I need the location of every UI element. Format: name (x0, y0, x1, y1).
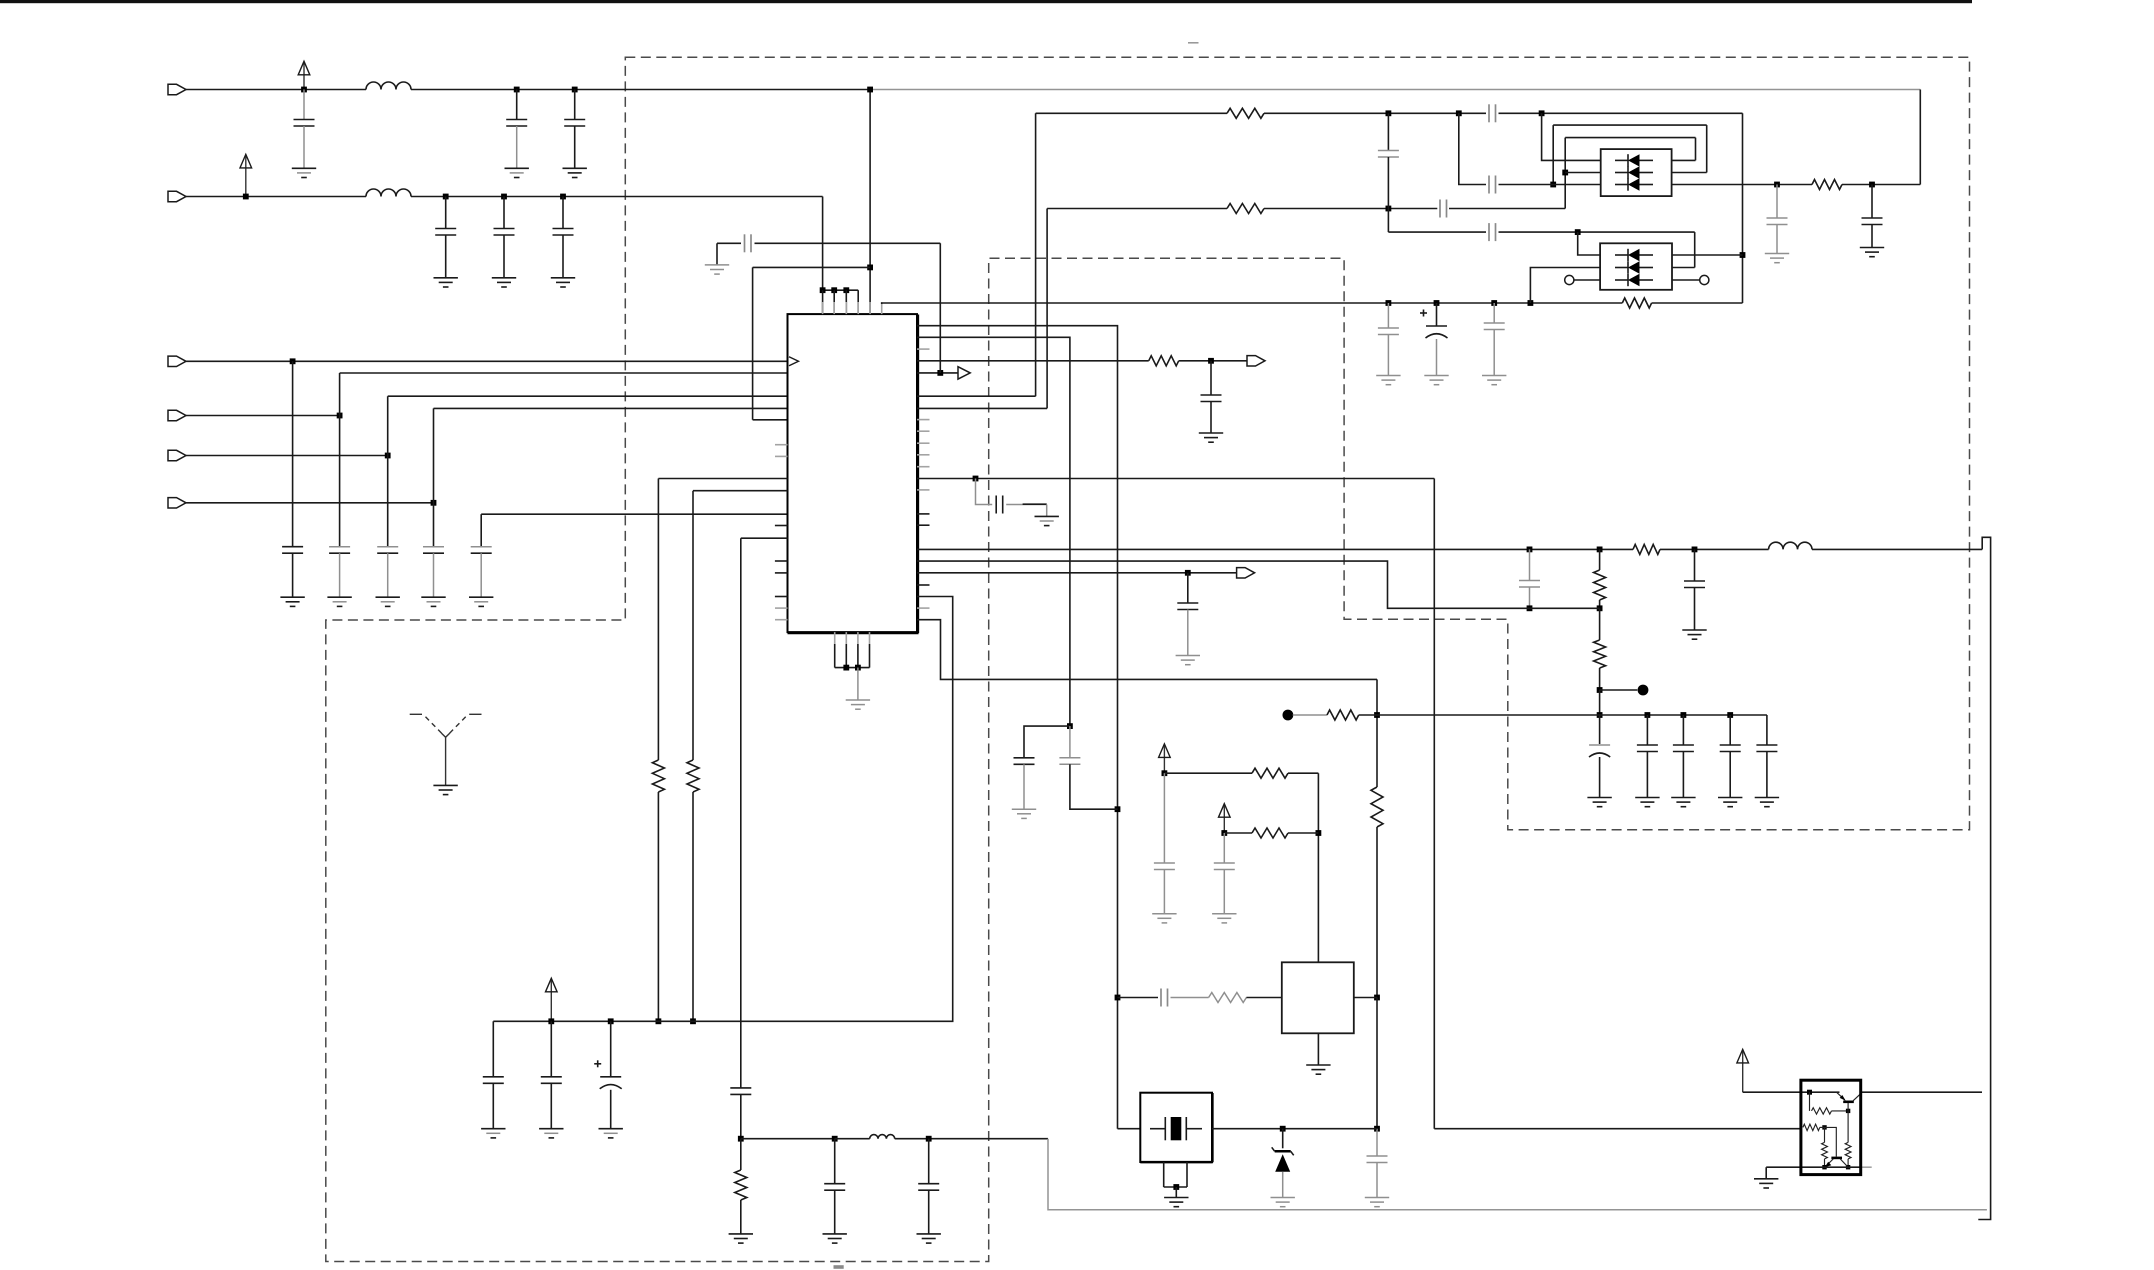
capacitor C25 (1720, 744, 1741, 746)
capacitor C26 (1756, 744, 1777, 746)
capacitor C14 wire top (1387, 113, 1389, 150)
diode D2a (1615, 254, 1628, 256)
input connector J4 (168, 410, 186, 420)
wire R3 to flag (1179, 360, 1247, 362)
wire y1138 b (835, 1138, 870, 1140)
power flag VCC6 (1742, 1051, 1744, 1092)
junction rail C34 (608, 1018, 614, 1024)
junction x1069 y726 (1067, 723, 1073, 729)
junction y549 c19 (1692, 547, 1698, 553)
junction y113 c14 (1386, 110, 1392, 116)
U1 right pin short stub y513.9 (917, 513, 930, 515)
wire Ra to node (1832, 1110, 1849, 1112)
capacitor C17 (1484, 322, 1505, 324)
test point TP1 (1638, 685, 1649, 696)
U1 bottom pin wire 2 (845, 644, 847, 668)
resistor Rd (1845, 1142, 1851, 1159)
wire R10 to x1318 (1288, 832, 1318, 834)
wire U1 top pin 3 riser (845, 290, 847, 314)
wire U1 pin514 to cap col (481, 513, 787, 515)
wire C35 drop (492, 1021, 494, 1077)
capacitor C31 (1214, 862, 1235, 864)
wire y549 mid (1660, 548, 1769, 550)
capacitor C18 tail (1529, 587, 1531, 608)
wire rectB riser (1564, 138, 1566, 209)
ground under C37 (1035, 515, 1059, 517)
capacitor C32 (1367, 1155, 1388, 1157)
IC U1 clock input marker (789, 357, 799, 366)
wire X1 out (1212, 1128, 1377, 1130)
wire y184 to corner (1842, 184, 1920, 186)
wire y184 to D1 (1499, 184, 1601, 186)
junction line1-C2 (514, 87, 520, 93)
capacitor C22 wire (1599, 715, 1601, 744)
wire C34 drop (610, 1021, 612, 1077)
wire J4 to U1 pin2 (340, 372, 788, 374)
diode D3 cathode bar (1275, 1150, 1291, 1153)
net-tie arm dash right (469, 713, 481, 715)
junction J4 col (337, 413, 343, 419)
capacitor C10 (423, 546, 444, 548)
U1 left pin short stub y525.5 (775, 525, 788, 527)
wire U1 pin619 (917, 620, 1377, 680)
diode array D2 body (1600, 243, 1672, 289)
transistor Q1 base bar (1843, 1101, 1854, 1104)
dashed shield boundary polygon (326, 57, 1970, 1261)
ground under R13 (729, 1233, 753, 1235)
wire J5 to U1 pin3 (388, 395, 788, 397)
capacitor C34 tail (610, 1090, 612, 1129)
wire TP2 to R8 (1293, 714, 1327, 716)
wire U1 top pin tie bar (823, 289, 859, 291)
wire X1 bottom pin B (1186, 1162, 1188, 1187)
junction J6 col (431, 500, 437, 506)
junction Qbox base net (1807, 1090, 1812, 1095)
ground under C22 (1587, 797, 1611, 799)
wire osc output (1354, 997, 1377, 999)
wire y208 right (1449, 208, 1565, 210)
capacitor C24 (1673, 744, 1694, 746)
U1 bottom pin stub 1 (834, 632, 836, 644)
power flag VCC3 (550, 980, 552, 1022)
power flag VCC5 (1223, 805, 1225, 833)
wire y113 left seg (1036, 112, 1227, 114)
junction x1318 r10 (1316, 830, 1322, 836)
wire node A to U1 left pin6 (753, 419, 788, 421)
wire J4 riser (339, 373, 341, 547)
capacitor C15 (1378, 327, 1399, 329)
ground under C7 (280, 596, 304, 598)
junction Rd bottom (1846, 1165, 1850, 1169)
ground under C44 (917, 1233, 941, 1235)
resistor Rc (1822, 1142, 1828, 1159)
junction y549 c18 (1527, 547, 1533, 553)
power flag VCC2 (245, 156, 247, 197)
capacitor C31 wire (1223, 833, 1225, 863)
ground under C6 (551, 277, 575, 279)
capacitor C42 (1488, 176, 1490, 194)
wire osc input (1118, 997, 1159, 999)
crystal X1 plate right (1185, 1117, 1187, 1140)
junction line2-C6 (560, 194, 566, 200)
transistor Q1 emitter (1837, 1092, 1845, 1100)
wire D2 top-right pin (1672, 254, 1743, 256)
wire U1 pin596 to rail (493, 597, 952, 1022)
wire Q-box gnd drop (1765, 1167, 1767, 1179)
resistor R9 (1252, 768, 1288, 778)
capacitor C5 wire (503, 197, 505, 229)
wire line2 mid (411, 196, 823, 198)
junction X1 tie (1173, 1184, 1179, 1190)
wire D1 top-left riser (1542, 113, 1601, 160)
U1 top pin stub 5 (869, 302, 871, 314)
U1 right pin stub y608.1 (917, 607, 930, 609)
ground under C11 (469, 596, 493, 598)
capacitor C16 tail (1436, 339, 1438, 376)
wire capjog down (976, 479, 993, 505)
capacitor C1 tail (303, 126, 305, 168)
wire U1 pin549 (917, 548, 1633, 550)
junction node A at y267 (867, 265, 873, 271)
wire D1 mid-left pin (1565, 172, 1601, 174)
diode D2c (1615, 279, 1628, 281)
junction r16 tp (1597, 687, 1603, 693)
capacitor C11 (471, 546, 492, 548)
capacitor C28 (1059, 757, 1080, 759)
U1 bottom pin stub 4 (869, 632, 871, 644)
U1 right pin stub y466.7 (917, 466, 930, 468)
U1 top pin stub 3 (845, 302, 847, 314)
diode array D1 body (1601, 149, 1672, 196)
transistor Q1 collector (1853, 1093, 1861, 1101)
U1 right pin stub y443.2 (917, 442, 930, 444)
wire y715 rail (1377, 714, 1767, 716)
capacitor C8 tail (339, 553, 341, 597)
capacitor C29 (730, 1087, 751, 1089)
resistor R11 (652, 760, 664, 792)
wire Rb to node (1820, 1126, 1825, 1128)
wire node drop (1847, 1111, 1849, 1143)
capacitor C19 (1684, 580, 1705, 582)
wire C33 drop (550, 1021, 552, 1077)
wire y549 right (1812, 548, 1982, 550)
U1 right pin stub y349.1 (917, 348, 930, 350)
wire x1377 drop1 (1376, 679, 1378, 787)
junction x1377 xtal line (1374, 1126, 1380, 1132)
wire C38 right seg (755, 242, 941, 244)
capacitor C3 wire (574, 90, 576, 120)
junction Q2 base node (1822, 1125, 1826, 1129)
ground under C1 (292, 167, 316, 169)
wire C38 left seg (717, 242, 741, 244)
U1 right pin short stub y585 (917, 584, 930, 586)
capacitor C38 (744, 234, 746, 252)
resistor R14 (1371, 787, 1383, 827)
capacitor C23 (1637, 744, 1658, 746)
wire right bracket (1978, 537, 1990, 1219)
junction y1138 c31 (926, 1136, 932, 1142)
capacitor C16 electrolytic (1426, 325, 1447, 327)
wire y1138 a (741, 1138, 835, 1140)
U1 left pin short stub y561 (775, 560, 788, 562)
capacitor C19 tail (1694, 588, 1696, 631)
junction O1 cap col (1185, 570, 1191, 576)
capacitor C5 (494, 228, 515, 230)
junction x1377 osc pin (1374, 995, 1380, 1001)
capacitor C27 (1014, 757, 1035, 759)
input connector J2 (168, 191, 186, 201)
resistor R8 (1327, 710, 1359, 720)
capacitor C33 tail (550, 1083, 552, 1128)
ground under C30 (1152, 913, 1176, 915)
capacitor C44 tail (928, 1190, 930, 1234)
capacitor C2 wire (516, 90, 518, 120)
ground under C35 (481, 1128, 505, 1130)
wire U1 pin-top6 bend (882, 303, 1531, 304)
capacitor C12 wire (1210, 361, 1212, 395)
wire U1 pin337 (917, 337, 1070, 726)
U1 right pin stub y489.9 (917, 489, 930, 491)
capacitor C33 (541, 1076, 562, 1078)
ground under C5 (492, 277, 516, 279)
ground under C16 (1424, 375, 1448, 377)
wire Q1 out (1861, 1091, 1982, 1093)
capacitor C44 (918, 1183, 939, 1185)
wire U1 top pin 4 riser (857, 290, 859, 314)
capacitor C14 (1378, 150, 1399, 152)
junction line2-C4 (443, 194, 449, 200)
wire x1920 riser (1919, 90, 1921, 185)
capacitor C15 wire (1387, 303, 1389, 328)
wire D2 top-left riser (1578, 232, 1600, 255)
capacitor C21 wire (1871, 185, 1873, 219)
capacitor C10 tail (433, 553, 435, 597)
capacitor C40 (1439, 200, 1441, 218)
ground under C4 (434, 277, 458, 279)
junction pin478 capjog (973, 476, 979, 482)
ground under C3 (563, 167, 587, 169)
input connector J6 (168, 498, 186, 508)
resistor R7 (1633, 544, 1660, 554)
ground under C32 (1365, 1197, 1389, 1199)
page top border bar (0, 0, 1972, 3)
wire y302 right (1652, 302, 1743, 304)
junction rail P3 (548, 1018, 554, 1024)
wire capjog right (1006, 504, 1046, 506)
junction bottom tie 2 (855, 665, 861, 671)
capacitor C6 wire (562, 197, 564, 229)
wire y1138 c (895, 1138, 1048, 1140)
ground under C19 (1682, 629, 1706, 631)
junction y715 c25 (1727, 712, 1733, 718)
wire U1 pin478 right (917, 478, 1434, 480)
capacitor C22 electrolytic (1589, 744, 1610, 746)
wire U1 bottom tie bar (835, 667, 870, 669)
wire branch to D2 mid-left pin (1530, 268, 1600, 304)
resistor R10 (1252, 828, 1288, 838)
ground under C2 (505, 167, 529, 169)
wire y184 right (1672, 184, 1812, 186)
junction J5 col (385, 453, 391, 459)
capacitor C29 tail (740, 1094, 742, 1138)
junction P4 (1162, 770, 1168, 776)
capacitor C20 tail (1776, 225, 1778, 254)
U1 left pin stub y456.4 (775, 455, 788, 457)
crystal X1 plate left (1164, 1117, 1166, 1140)
capacitor C7 wire (292, 361, 294, 546)
wire U1 ground riser (857, 668, 859, 700)
U1 bottom pin stub 2 (845, 632, 847, 644)
capacitor C30 wire (1163, 773, 1165, 863)
wire U1 pin408 out (917, 407, 1047, 409)
wire c43 to R18 (1171, 997, 1209, 999)
wire x1377 drop3 (1376, 998, 1378, 1129)
wire P5 to R10 (1224, 832, 1252, 834)
capacitor C22 tail (1599, 757, 1601, 798)
wire y302 to resistor (1530, 302, 1622, 304)
wire y208 left seg (1047, 208, 1227, 210)
diode D2b (1615, 267, 1628, 269)
capacitor C32 tail (1376, 1163, 1378, 1198)
junction x1377 y715 (1374, 712, 1380, 718)
wire D3 anode lead (1282, 1172, 1284, 1198)
capacitor C6 (553, 228, 574, 230)
resistor Ra (1812, 1108, 1832, 1114)
wire C38 jog down (939, 243, 941, 373)
capacitor C4 tail (445, 235, 447, 278)
U1 top pin stub 2 (833, 302, 835, 314)
wire C28 drop (1069, 726, 1071, 758)
wire Q1 base drop (1809, 1092, 1811, 1111)
U1 bottom pin wire 4 (869, 644, 871, 668)
wire line1 left (186, 89, 367, 91)
ground under C12 (1199, 432, 1223, 434)
wire y232 drop to D2 (1694, 232, 1696, 267)
ground under C27 (1012, 808, 1036, 810)
capacitor C15 tail (1387, 335, 1389, 376)
U1 top pin stub 4 (857, 302, 859, 314)
transistor Q2 emitter (1826, 1159, 1833, 1166)
capacitor C21 (1862, 217, 1883, 219)
wire D3 lead (1282, 1129, 1284, 1149)
transistor Q2 base bar (1831, 1157, 1842, 1160)
test point TP2 (1283, 710, 1294, 721)
ground under C38 (705, 264, 729, 266)
junction tie bar p3 (843, 287, 849, 293)
junction pin372 (937, 370, 943, 376)
capacitor C12 tail (1210, 402, 1212, 434)
junction c18 y608 (1527, 605, 1533, 611)
junction y232 riser (1575, 229, 1581, 235)
junction x1742 D2 pin (1740, 252, 1746, 258)
wire X1 bottom tie (1164, 1186, 1187, 1188)
U1 bottom pin stub 3 (857, 632, 859, 644)
ground under C24 (1671, 797, 1695, 799)
wire rectA riser (1552, 125, 1554, 184)
capacitor C14 wire bottom (1387, 157, 1389, 232)
diode D3 (1275, 1154, 1290, 1172)
ground under net-tie (433, 784, 457, 786)
terminal circle T2 (1700, 275, 1709, 284)
net-tie stem (445, 737, 447, 785)
capacitor C26 tail (1766, 752, 1768, 798)
resistor R13 (735, 1170, 747, 1200)
diode D1b (1615, 172, 1628, 174)
junction y113 riser D1 (1539, 110, 1545, 116)
output connector O1 (1237, 568, 1255, 578)
junction line2-P2 (243, 194, 249, 200)
junction y1138 left (738, 1136, 744, 1142)
capacitor C27 tail (1023, 764, 1025, 809)
wire R9 to corner (1288, 772, 1318, 774)
capacitor C31 tail (1223, 870, 1225, 914)
wire D2 mid-right pin (1672, 267, 1695, 269)
wire y208 mid (1264, 208, 1437, 210)
signal arrow A1 (958, 367, 970, 379)
capacitor C25 wire (1729, 715, 1731, 745)
capacitor C11 tail (480, 553, 482, 597)
junction rectB mid pin (1562, 170, 1568, 176)
capacitor C35 tail (492, 1083, 494, 1128)
wire R12 col bottom (692, 792, 694, 1021)
wire U1 top pin 1 riser (822, 290, 824, 314)
wire J3 to U1 clock pin (186, 360, 788, 362)
capacitor C12 (1201, 394, 1222, 396)
wire x1377 drop2 (1376, 827, 1378, 998)
wire Rc bottom (1824, 1159, 1826, 1167)
capacitor C2 tail (516, 126, 518, 168)
wire rectA top (1553, 124, 1707, 126)
wire Q1 base link (1847, 1103, 1849, 1111)
resistor R6 (1812, 180, 1842, 190)
input connector J3 (168, 356, 186, 366)
inductor L3 (1769, 542, 1812, 549)
wire TP1 lead (1600, 689, 1638, 691)
input connector J5 (168, 450, 186, 460)
net-tie diagonal right (448, 717, 466, 735)
wire U1 pin360 out (917, 360, 1149, 362)
input connector J1 (168, 84, 186, 94)
junction J3 cap col (290, 358, 296, 364)
ground under C10 (421, 596, 445, 598)
wire line1 drop to U1 top pin 5 (869, 90, 871, 315)
wire C29 col (740, 538, 742, 1088)
wire U1 pin325 (917, 326, 1118, 1129)
wire D2 bottom-right lead (1672, 279, 1700, 281)
resistor R5 (1622, 298, 1651, 308)
U1 left pin short stub y596.5 (775, 596, 788, 598)
junction line1-C1 (301, 87, 307, 93)
resistor R15 (1594, 570, 1606, 600)
capacitor C41 (1488, 223, 1490, 241)
capacitor C44 wire (928, 1139, 930, 1184)
capacitor C17 wire (1493, 303, 1495, 323)
wire U1 top pin 2 riser (833, 290, 835, 314)
junction y302 c15 (1386, 300, 1392, 306)
crystal X1 lead left (1150, 1128, 1165, 1130)
ground under C31 (1212, 913, 1236, 915)
capacitor C13 wire (1187, 573, 1189, 603)
wire R11 col bottom (657, 792, 659, 1021)
junction rectA bottom (1550, 182, 1556, 188)
junction line1-C3 (572, 87, 578, 93)
capacitor C21 tail (1871, 225, 1873, 248)
wire gray bottom rail (1048, 1139, 1987, 1210)
wire J6 to U1 pin4 (434, 407, 788, 409)
capacitor C37 (995, 496, 997, 514)
U1 top pin stub 1 (822, 302, 824, 314)
capacitor C32 wire (1376, 1129, 1378, 1156)
